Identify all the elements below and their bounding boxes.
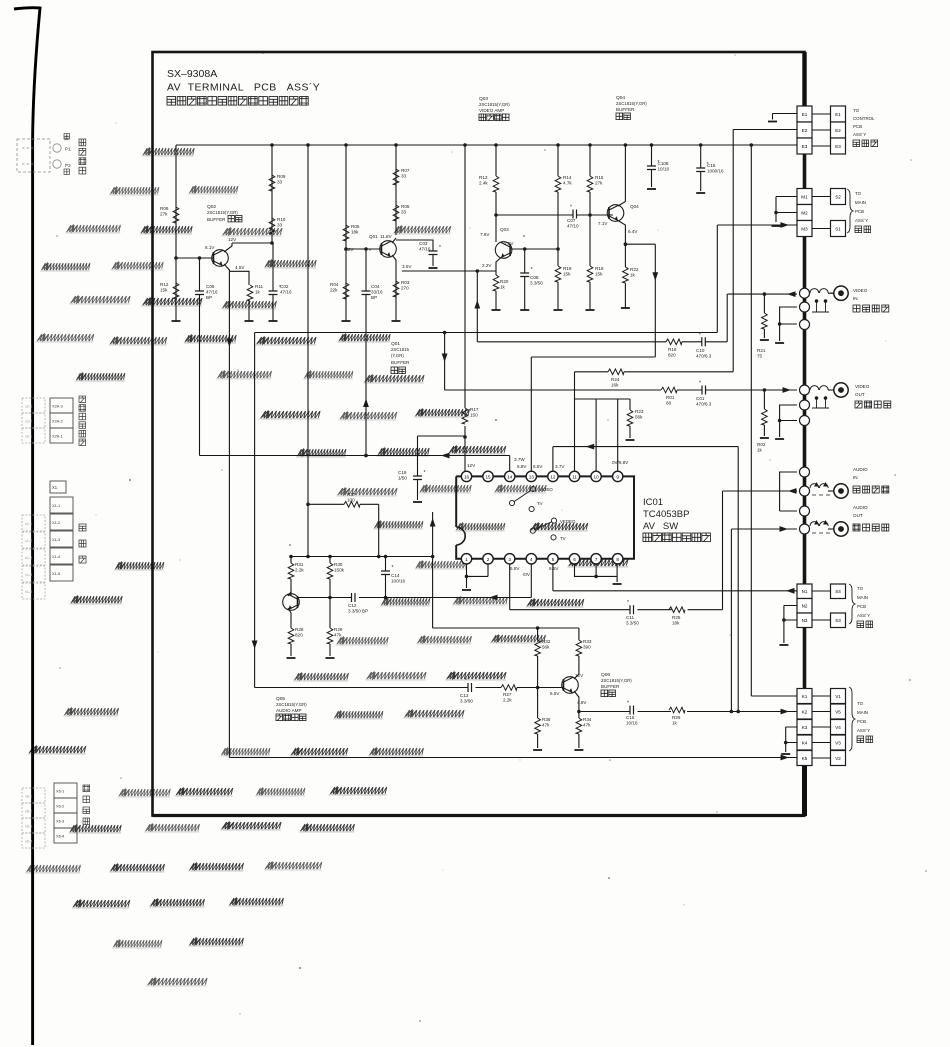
svg-text:470/6.3: 470/6.3 xyxy=(696,402,712,407)
junction 625.4,145 xyxy=(624,143,628,147)
arrow audio out xyxy=(780,526,789,532)
svg-text:R37: R37 xyxy=(347,492,356,497)
resistor R26 1k xyxy=(669,707,685,713)
junction 558,249 xyxy=(556,247,560,251)
svg-text:27k: 27k xyxy=(160,212,168,217)
svg-text:820: 820 xyxy=(295,633,303,638)
wire RCA video-in stub xyxy=(828,292,834,294)
brace N group xyxy=(849,584,855,624)
ground at 651.5,189 xyxy=(647,188,656,190)
wire audio-in line xyxy=(723,490,798,492)
ground at 524.7,310 xyxy=(520,309,529,311)
connector pin X2A-3 xyxy=(22,398,45,413)
svg-text:16k: 16k xyxy=(611,383,619,388)
resistor R34 47k xyxy=(576,718,582,734)
junction 272,243 xyxy=(270,241,274,245)
svg-text:*: * xyxy=(699,381,701,387)
wire bus drop x308 xyxy=(307,145,309,557)
svg-text:1k: 1k xyxy=(255,290,261,295)
svg-text:AV SW: AV SW xyxy=(643,521,678,532)
svg-text:VIDEO: VIDEO xyxy=(855,384,870,389)
svg-text:11.8V: 11.8V xyxy=(380,234,393,239)
wire Q06 emitter lead xyxy=(574,691,579,712)
wire line F pin12 xyxy=(553,447,738,471)
svg-text:IN: IN xyxy=(853,475,858,480)
svg-text:VIDEO AMP: VIDEO AMP xyxy=(479,108,504,113)
svg-text:S2: S2 xyxy=(835,194,841,199)
svg-text:12V: 12V xyxy=(575,673,584,678)
wire line E pins 9 10 xyxy=(575,399,631,471)
svg-text:N1: N1 xyxy=(802,589,808,594)
svg-text:K5: K5 xyxy=(802,756,808,761)
svg-text:P2: P2 xyxy=(65,163,71,168)
connector pin V2 xyxy=(831,751,846,766)
svg-text:X1-5: X1-5 xyxy=(52,571,60,576)
svg-text:TO: TO xyxy=(857,586,864,591)
resistor R27 2.2k xyxy=(501,685,517,691)
ground at 273,321 xyxy=(269,320,278,322)
svg-text:390: 390 xyxy=(583,645,591,650)
connector pin N2 xyxy=(797,599,812,614)
svg-text:BUFFER: BUFFER xyxy=(207,217,226,222)
svg-text:E2: E2 xyxy=(802,128,808,133)
connector pin X1-2 xyxy=(50,514,73,530)
ground at 330,658 xyxy=(326,657,335,659)
junction 764.4,294.1 xyxy=(763,292,767,296)
svg-text:8: 8 xyxy=(616,557,619,562)
arrow video out xyxy=(783,387,792,393)
arrow into N1 xyxy=(786,588,795,594)
svg-text:R15: R15 xyxy=(595,175,604,180)
svg-text:BP: BP xyxy=(371,295,377,300)
svg-text:4.7k: 4.7k xyxy=(563,181,572,186)
PCB ASSY border frame xyxy=(153,52,805,816)
svg-text:7: 7 xyxy=(595,557,598,562)
svg-text:R22: R22 xyxy=(630,267,639,272)
svg-text:12V: 12V xyxy=(228,237,237,242)
svg-text:X6-3: X6-3 xyxy=(56,819,64,824)
resistor R23 56k xyxy=(627,410,633,426)
wire audio-out line xyxy=(731,528,797,530)
svg-text:K4: K4 xyxy=(802,740,808,745)
junction 330,597.5 xyxy=(328,596,332,600)
capacitor C02 47/16 xyxy=(269,291,278,295)
RCA jack AUDIO OUT xyxy=(800,506,810,516)
svg-text:1k: 1k xyxy=(630,273,636,278)
wire R36 column xyxy=(537,688,539,749)
svg-text:1k: 1k xyxy=(500,285,506,290)
svg-text:47/16: 47/16 xyxy=(280,290,292,295)
connector pin V4 xyxy=(831,720,846,735)
wire Q06 collector hline xyxy=(433,627,579,629)
wire N2-N3 tie xyxy=(784,606,797,644)
svg-text:2SC1815(Y,GR): 2SC1815(Y,GR) xyxy=(479,102,510,107)
wire Q06 collector lead xyxy=(574,674,579,679)
resistor R31 2.2k xyxy=(288,563,294,579)
wire Q05 collector xyxy=(288,592,291,596)
svg-text:3: 3 xyxy=(508,557,511,562)
junction 378.7,556.5 xyxy=(377,555,381,559)
ground at 396,321 xyxy=(392,320,401,322)
junction 199.5,258 xyxy=(198,256,202,260)
svg-text:6.8V: 6.8V xyxy=(510,566,520,571)
resistor R18 15k xyxy=(587,266,593,282)
arrow Q02 emitter drop xyxy=(227,339,233,348)
arrow pin4 line xyxy=(489,595,498,601)
junction 477.3,271 xyxy=(476,269,480,273)
svg-text:X2A-3: X2A-3 xyxy=(52,404,63,409)
resistor R05 18k xyxy=(343,225,349,241)
arrow video drop x477 xyxy=(474,300,480,309)
wire R23 column xyxy=(629,399,631,438)
svg-text:0V/9.8V: 0V/9.8V xyxy=(612,460,629,465)
wire Q02 collector xyxy=(224,243,272,252)
wire RCA audio-out stub xyxy=(828,528,834,530)
junction 308,556.5 xyxy=(306,555,310,559)
arrow audio in xyxy=(788,488,797,494)
connector pin E2 xyxy=(797,122,812,138)
svg-text:OUT: OUT xyxy=(855,392,865,397)
ground at 433,268 xyxy=(429,267,438,269)
svg-text:R05: R05 xyxy=(401,204,410,209)
label: to IR receiver board (vertical) xyxy=(79,396,86,446)
svg-text:R04: R04 xyxy=(330,282,339,287)
wire M3 line xyxy=(717,224,797,226)
junction 366,249 xyxy=(364,247,368,251)
connector pin E1 xyxy=(797,106,812,122)
junction 466.5,576.4 xyxy=(465,575,469,579)
svg-text:C02: C02 xyxy=(280,284,289,289)
ground at 176,321 xyxy=(172,320,181,322)
svg-text:R03: R03 xyxy=(401,280,410,285)
svg-text:6.5V: 6.5V xyxy=(549,566,559,571)
svg-text:S3: S3 xyxy=(835,618,841,623)
label: to tube socket board (vertical) xyxy=(83,785,90,825)
wire pin5 to N1 xyxy=(553,558,797,591)
svg-text:R01: R01 xyxy=(666,395,675,400)
wire R05/R04 column xyxy=(345,145,347,321)
resistor R20 1k xyxy=(493,275,499,291)
wire video-out line D xyxy=(445,389,797,391)
connector pin X1-3 xyxy=(50,531,73,547)
IC01 pin 15 xyxy=(483,471,493,481)
svg-text:6: 6 xyxy=(573,557,576,562)
svg-text:PCB: PCB xyxy=(857,604,866,609)
ground at 779.6,343 xyxy=(775,342,784,344)
junction 537.6,628 xyxy=(536,626,540,630)
rail segment below K5 xyxy=(802,764,807,816)
wire Q03 emitter xyxy=(496,258,501,272)
junction 751.3,145 xyxy=(750,143,754,147)
wire Q04 collector xyxy=(618,145,625,206)
svg-text:C01: C01 xyxy=(696,396,705,401)
svg-text:x6-4: x6-4 xyxy=(25,840,32,844)
wire Q03 collector line xyxy=(496,214,613,216)
wire audio collector rail xyxy=(291,556,433,558)
svg-text:2.2V: 2.2V xyxy=(482,263,492,268)
transistor Q05 xyxy=(283,594,300,611)
svg-text:75: 75 xyxy=(757,354,763,359)
svg-text:ASS´Y: ASS´Y xyxy=(853,132,866,137)
svg-text:68: 68 xyxy=(666,401,672,406)
ground at 772.5,121.5 xyxy=(768,121,777,123)
svg-text:R26: R26 xyxy=(672,715,681,720)
svg-text:V2: V2 xyxy=(835,756,841,761)
IC01 internal switch 2 xyxy=(530,518,556,540)
svg-text:BP: BP xyxy=(206,295,212,300)
IC01 pin 10 xyxy=(591,471,601,481)
wire C08 branch xyxy=(524,249,526,310)
svg-text:C13: C13 xyxy=(460,693,469,698)
arrow x254 drop xyxy=(252,641,258,650)
svg-text:E3: E3 xyxy=(835,144,841,149)
wire R14/R19 column xyxy=(557,145,559,310)
resistor R07 33 xyxy=(393,169,399,185)
svg-text:3.3/60: 3.3/60 xyxy=(460,699,473,704)
svg-text:2: 2 xyxy=(487,557,490,562)
wire x254 drop xyxy=(254,333,256,688)
svg-text:4.8V: 4.8V xyxy=(577,700,587,705)
svg-text:1: 1 xyxy=(465,557,468,562)
connector pin M1 xyxy=(797,189,812,205)
IC01 pin 2 xyxy=(483,554,493,564)
wire R34 column xyxy=(578,712,580,749)
svg-text:E3: E3 xyxy=(802,144,808,149)
wire K3-K4 tie xyxy=(786,727,797,752)
connector pin K1 xyxy=(797,689,812,704)
svg-text:C05: C05 xyxy=(206,284,215,289)
connector pin K4 xyxy=(797,735,812,750)
arrow into K2 xyxy=(781,709,790,715)
svg-text:x6-1: x6-1 xyxy=(25,795,32,799)
svg-text:VEDEO: VEDEO xyxy=(560,519,576,524)
junction 816.5,398 xyxy=(815,396,819,400)
transistor Q04 xyxy=(607,205,624,222)
ground at 783.9,645 xyxy=(779,644,788,646)
svg-text:MAIN: MAIN xyxy=(857,595,868,600)
svg-text:R17: R17 xyxy=(470,407,479,412)
svg-text:*: * xyxy=(424,470,426,476)
junction 700.7,145 xyxy=(699,143,703,147)
svg-text:X1-1: X1-1 xyxy=(52,503,60,508)
junction 308,145 xyxy=(306,143,310,147)
ground at 249,321 xyxy=(245,320,254,322)
svg-text:33: 33 xyxy=(277,180,283,185)
svg-text:18k: 18k xyxy=(351,230,359,235)
svg-text:R36: R36 xyxy=(542,717,551,722)
wire R13 column xyxy=(495,145,497,242)
wire E2 riser to R24 xyxy=(732,130,734,372)
svg-text:R31: R31 xyxy=(295,562,304,567)
IC01 pin 9 xyxy=(613,471,623,481)
wire R37 branch xyxy=(308,504,379,556)
connector pin V1 xyxy=(831,689,846,704)
svg-text:TO: TO xyxy=(853,108,860,113)
svg-text:R30: R30 xyxy=(334,562,343,567)
wire Q06 emitter line to K2 xyxy=(579,711,797,713)
junction 825.5,398 xyxy=(824,396,828,400)
svg-text:BUFFER: BUFFER xyxy=(391,360,410,365)
wire C19 branch xyxy=(417,436,419,500)
junction 330,556.5 xyxy=(328,555,332,559)
svg-text:100/16: 100/16 xyxy=(391,579,405,584)
svg-text:TO: TO xyxy=(855,191,862,196)
IC01 pin 1 xyxy=(461,554,471,564)
resistor R02 1k xyxy=(762,409,768,425)
svg-text:x1-3: x1-3 xyxy=(25,556,32,560)
wire Q02 base xyxy=(176,257,213,259)
connector pin N1 xyxy=(797,584,812,599)
svg-text:2.4k: 2.4k xyxy=(479,181,488,186)
svg-text:AUDIO: AUDIO xyxy=(853,467,868,472)
svg-text:10/16: 10/16 xyxy=(626,721,638,726)
resistor R36 47k xyxy=(535,718,541,734)
transistor Q03 xyxy=(495,242,512,259)
page edge curve xyxy=(14,8,40,1045)
svg-text:1k: 1k xyxy=(757,448,763,453)
ground at 496,310 xyxy=(492,309,501,311)
svg-text:*: * xyxy=(627,600,629,606)
brace M group xyxy=(847,189,853,233)
svg-text:6.5V: 6.5V xyxy=(533,464,543,469)
svg-text:R09: R09 xyxy=(277,174,286,179)
svg-text:150: 150 xyxy=(470,413,478,418)
junction 764.4,390 xyxy=(763,388,767,392)
ground at 776,226 xyxy=(772,225,781,227)
label: to main board (vertical) xyxy=(79,524,86,563)
wire R07 column xyxy=(395,145,397,235)
svg-text:AUDIO AMP: AUDIO AMP xyxy=(276,708,302,713)
wire video-in riser xyxy=(726,294,728,342)
svg-text:1000/16: 1000/16 xyxy=(707,169,724,174)
wire audio shield tie xyxy=(780,472,797,511)
svg-text:Q01: Q01 xyxy=(369,234,378,239)
svg-text:x2-2: x2-2 xyxy=(25,420,32,424)
svg-text:6.5V: 6.5V xyxy=(550,691,560,696)
svg-text:K2: K2 xyxy=(802,709,808,714)
svg-text:ASS´Y: ASS´Y xyxy=(857,613,870,618)
connector pin K3 xyxy=(797,720,812,735)
resistor R10 33 xyxy=(269,218,275,234)
connector pin S1 xyxy=(831,221,846,237)
wire E boxes to outer xyxy=(812,114,831,146)
svg-text:47k: 47k xyxy=(542,723,550,728)
svg-text:3.5V: 3.5V xyxy=(402,264,412,269)
ground at 700.7,193 xyxy=(696,192,705,194)
svg-text:X6-4: X6-4 xyxy=(56,834,65,839)
transistor Q02 xyxy=(212,250,229,267)
svg-text:13: 13 xyxy=(529,474,535,479)
svg-text:MAIN: MAIN xyxy=(855,200,866,205)
junction 291,556.5 xyxy=(289,555,293,559)
wire audio-in riser xyxy=(722,491,724,610)
junction 651.5,145 xyxy=(650,143,654,147)
junction 578.9,711.5 xyxy=(577,710,581,714)
svg-text:3.7W: 3.7W xyxy=(514,457,525,462)
connector pin S3 xyxy=(831,613,846,628)
wire C109 column xyxy=(651,145,653,187)
wire E1 ground stub xyxy=(773,114,798,120)
svg-text:2SC1815(Y,GR): 2SC1815(Y,GR) xyxy=(276,702,307,707)
connector pin S4 xyxy=(831,584,846,599)
svg-text:4.5V: 4.5V xyxy=(235,265,245,270)
resistor R15 27k xyxy=(587,176,593,192)
svg-text:M2: M2 xyxy=(801,210,808,215)
IC01 pin 14 xyxy=(505,471,515,481)
svg-text:X1-4: X1-4 xyxy=(52,554,61,559)
svg-text:*: * xyxy=(658,160,660,166)
connector pin X1-1 xyxy=(50,497,73,513)
svg-text:E1: E1 xyxy=(802,112,808,117)
capacitor C05 47/16 xyxy=(195,291,204,295)
svg-text:47/16: 47/16 xyxy=(419,247,431,252)
wire C03 branch xyxy=(396,240,433,266)
connector pin E3 xyxy=(797,138,812,154)
svg-text:*: * xyxy=(279,285,281,291)
wire 12V drop to K1 xyxy=(751,145,797,696)
arrow video in xyxy=(787,291,796,297)
connector pin S2 xyxy=(831,189,846,205)
ground at 617.1,584 xyxy=(613,583,622,585)
svg-text:18k: 18k xyxy=(672,621,680,626)
svg-text:TV: TV xyxy=(560,536,566,541)
RCA jack VIDEO OUT xyxy=(800,385,810,395)
junction 396,145 xyxy=(394,143,398,147)
ground at 590,310 xyxy=(586,309,595,311)
wire audio bus y333 xyxy=(255,332,718,334)
resistor R30 150k xyxy=(327,563,333,579)
svg-text:47/10: 47/10 xyxy=(567,224,579,229)
svg-text:2.2k: 2.2k xyxy=(295,568,304,573)
svg-text:x1-4: x1-4 xyxy=(25,573,32,577)
svg-text:(Y,GR): (Y,GR) xyxy=(391,353,404,358)
svg-text:PCB: PCB xyxy=(857,719,866,724)
capacitor C03 47/16 xyxy=(429,251,438,255)
wire video line A xyxy=(477,341,727,343)
connector pin V3 xyxy=(831,735,846,750)
connector pin E2 (control side) xyxy=(831,122,846,138)
junction 444.6,332.5 xyxy=(443,331,447,335)
capacitor C16 10/16 xyxy=(630,706,634,715)
svg-text:IN: IN xyxy=(853,296,858,301)
svg-text:S4: S4 xyxy=(835,589,841,594)
ground at 537.6,750 xyxy=(533,749,542,751)
svg-text:P1: P1 xyxy=(65,147,71,152)
svg-text:*: * xyxy=(439,245,441,251)
svg-text:6.4V: 6.4V xyxy=(628,229,638,234)
wire C13 line xyxy=(255,687,538,689)
ground at 558,310 xyxy=(554,309,563,311)
wire R17 tap xyxy=(418,435,466,437)
svg-text:X1-3: X1-3 xyxy=(52,537,60,542)
wire video-in line xyxy=(727,293,797,295)
svg-text:R32: R32 xyxy=(542,639,551,644)
arrow main bus xyxy=(441,453,450,459)
wire RCA video-out stub xyxy=(828,389,834,391)
svg-text:X2A-1: X2A-1 xyxy=(52,434,63,439)
transistor Q01 xyxy=(380,241,397,258)
ground at 417.5,502 xyxy=(413,501,422,503)
arrow line F xyxy=(586,444,595,450)
svg-text:2SC1815(Y,GR): 2SC1815(Y,GR) xyxy=(601,678,632,683)
wire Q01 emitter xyxy=(392,255,396,265)
capacitor C04 33/16 xyxy=(362,291,371,295)
wire Q04 emitter branch xyxy=(625,243,655,245)
svg-text:2SC1815: 2SC1815 xyxy=(391,347,410,352)
svg-text:VIDEO: VIDEO xyxy=(853,288,868,293)
svg-text:C14: C14 xyxy=(391,573,400,578)
svg-text:7.1V: 7.1V xyxy=(598,221,608,226)
